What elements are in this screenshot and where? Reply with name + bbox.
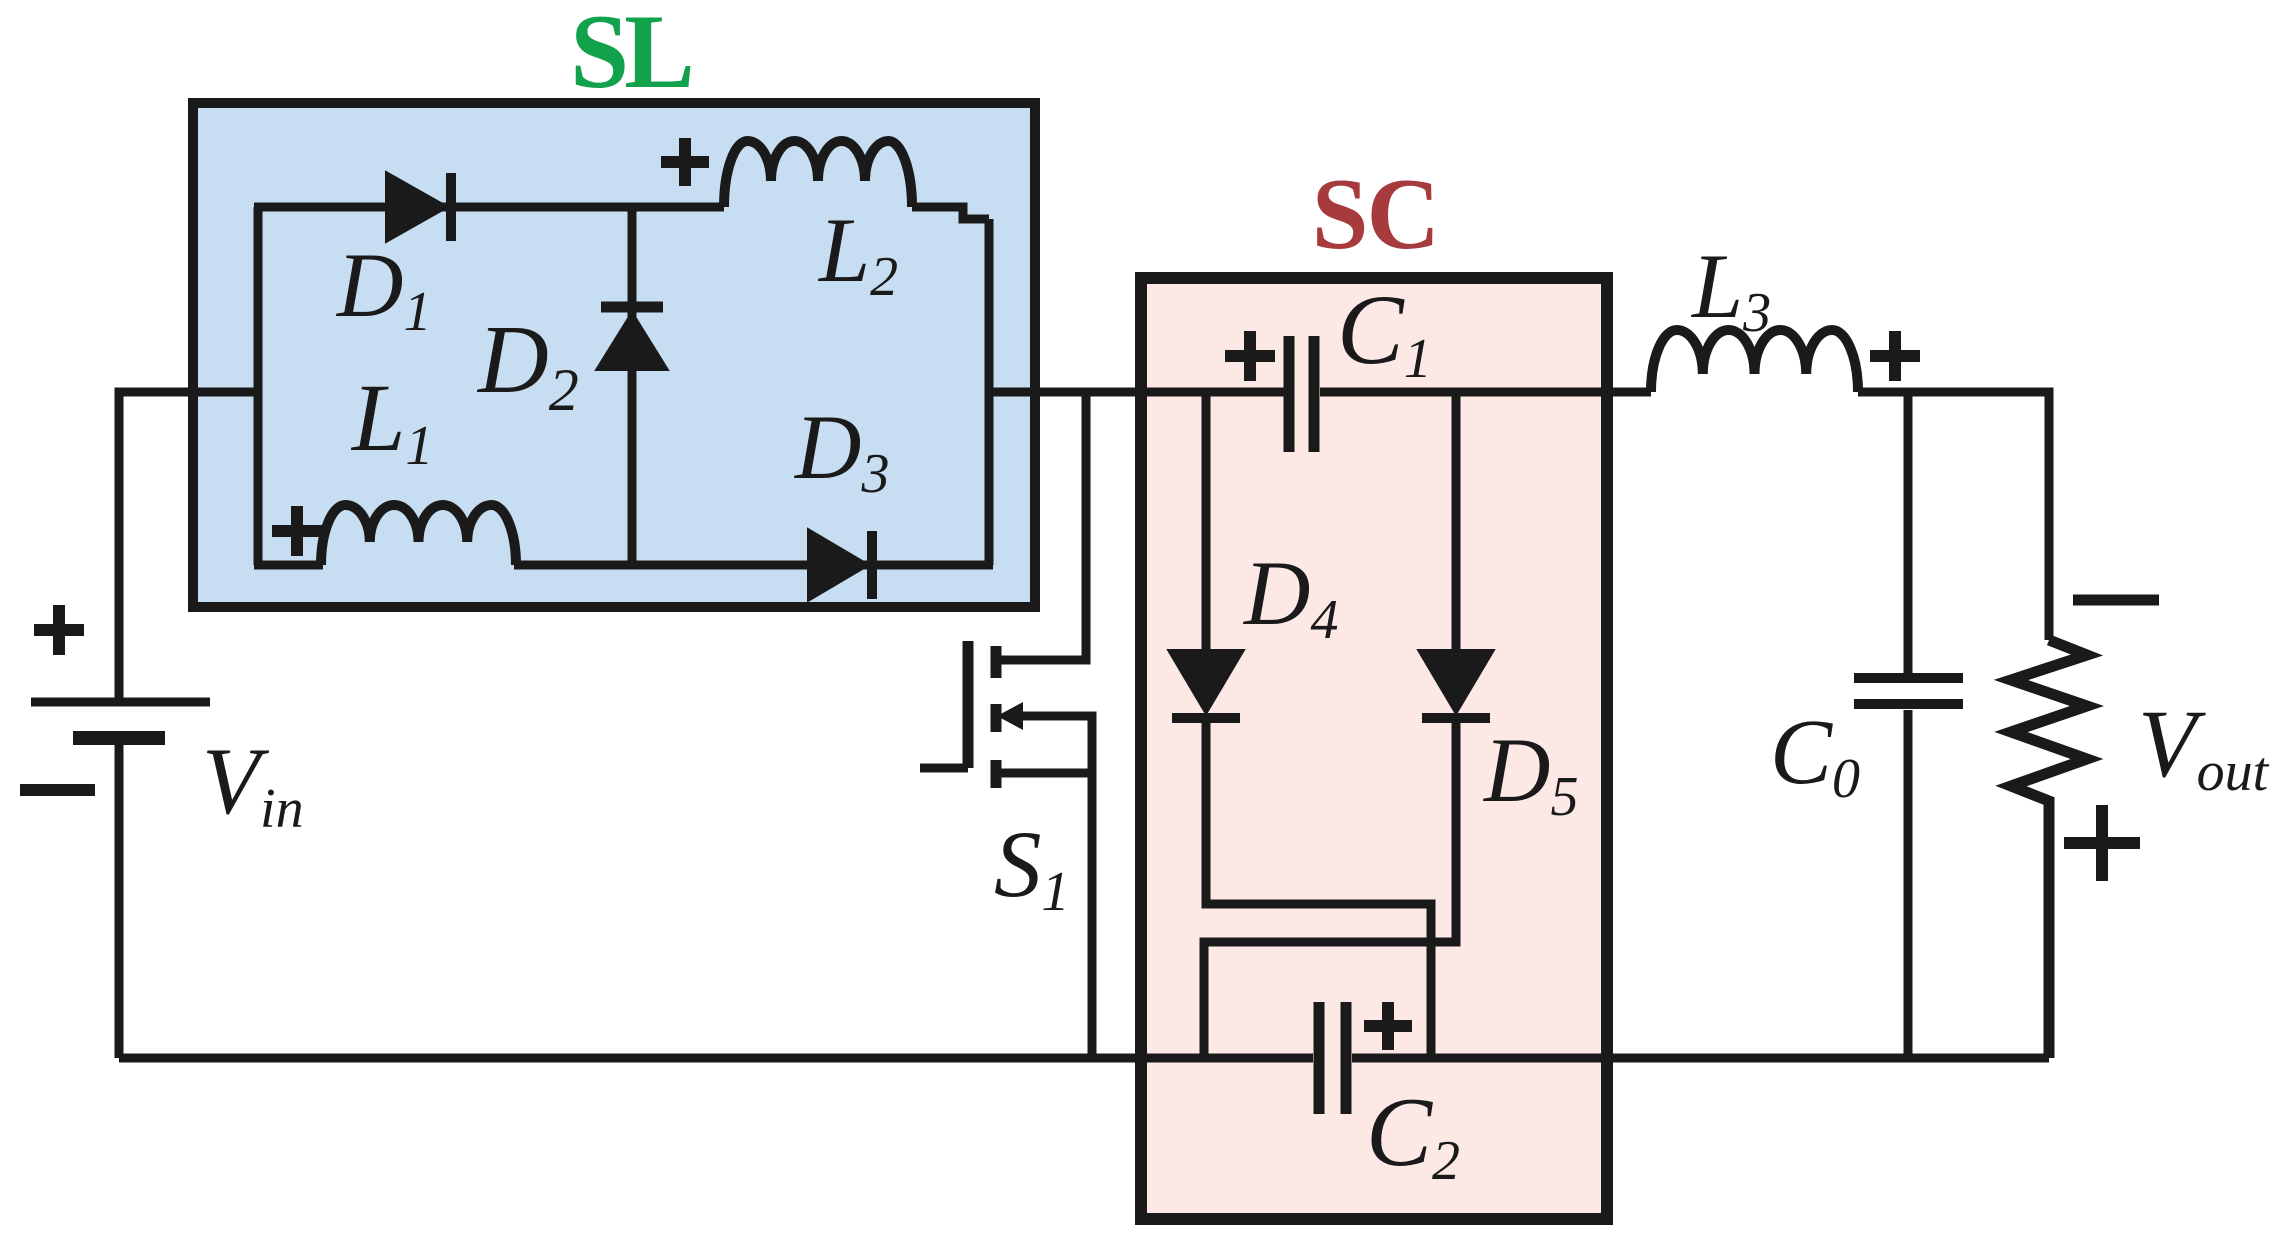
label D5 [1482,719,1578,828]
wire: D5 cathode down, left, down to C2 left lead [1204,718,1456,1058]
capacitor C0 [1854,392,1963,1058]
diode D1 [386,172,451,242]
wire: bottom rail from C2 right plate to load bottom corner [1352,1054,2049,1063]
diode D3 [808,529,872,601]
label D2 [476,306,579,423]
svg-text:S1: S1 [994,811,1070,923]
label L1 [350,364,433,477]
svg-text:C0: C0 [1770,701,1860,810]
wire: node B down to D5 anode [1452,392,1461,652]
label SC (switched-capacitor cell) [1312,158,1438,271]
wire: SL bottom branch right (L1 to D3 to right vertical) [514,561,993,570]
capacitor C2 [1319,1002,1346,1114]
label L3 [1690,235,1771,344]
Vin minus sign [20,784,95,796]
capacitor C1 [1289,336,1314,452]
label C1 [1337,274,1432,390]
Vin plus sign [34,605,84,655]
wire: SL inner loop right vertical [985,219,994,565]
label C0 [1770,701,1860,810]
diode D4 (pointing down) [1168,650,1244,718]
inductor L1 [321,505,516,565]
SL cell shaded box [193,103,1035,607]
wire: Vin positive terminal up and right to SL input node [119,392,258,704]
inductor L3 [1651,330,1858,392]
svg-text:SL: SL [570,0,691,110]
Vout minus sign [2073,595,2159,606]
label S1 [994,811,1070,923]
battery Vin [31,702,210,738]
wire: Vin negative terminal down to bottom rail [115,738,124,1058]
svg-text:L3: L3 [1690,235,1771,344]
label D1 [335,234,431,343]
wire: SL bottom branch left stub (to L1) [254,561,323,570]
diode D2 (on middle vertical branch, pointing up) [596,207,668,565]
wire: L3 to output top corner, down to load [1858,392,2049,640]
C1 plus sign [1225,331,1275,381]
transistor S1 (N-MOSFET switch) [920,392,1092,1058]
L2 plus sign [661,138,709,186]
SC cell shaded box [1141,278,1607,1219]
diode D5 (pointing down) [1418,650,1494,718]
wire: D4 cathode down, right, down to C2 right lead [1206,718,1431,1058]
label D3 [793,396,889,505]
resistor Vout (load) [2011,640,2087,1058]
wire: SL top branch (D1 branch) [254,203,724,212]
L1 plus sign [272,506,322,556]
wire: SL output node to C1 left plate (node A) [989,388,1284,397]
label D4 [1242,542,1338,651]
wire: node A down to D4 anode [1202,392,1211,652]
inductor L2 [724,141,989,219]
L3 plus sign [1870,331,1920,381]
svg-text:Vin: Vin [202,728,304,840]
wire: C1 right plate to L3 (node B) [1320,388,1651,397]
label C2 [1366,1078,1460,1192]
C2 plus sign [1364,1002,1412,1050]
label Vin [202,728,304,840]
wire: bottom rail from Vin to C2 left plate (through S1 source junction) [119,1054,1313,1063]
svg-text:Vout: Vout [2138,690,2270,803]
Vout plus sign [2064,805,2140,881]
label SL (switched-inductor cell) [570,0,691,110]
label L2 [817,199,898,308]
label Vout [2138,690,2270,803]
wire: SL inner loop left vertical [254,207,263,565]
svg-text:SC: SC [1312,158,1438,271]
